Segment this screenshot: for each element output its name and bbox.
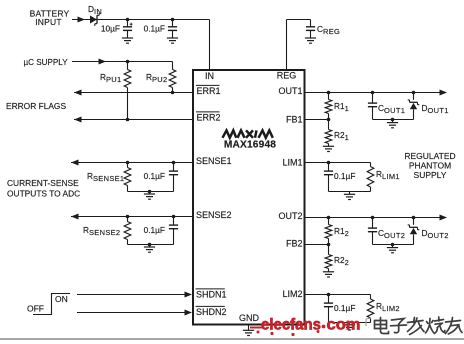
svg-text:0.1µF: 0.1µF xyxy=(144,24,165,34)
svg-text:ON: ON xyxy=(55,294,68,304)
svg-text:IN: IN xyxy=(205,71,214,81)
svg-text:R11: R11 xyxy=(334,101,349,113)
svg-text:INPUT: INPUT xyxy=(35,17,62,27)
svg-text:R21: R21 xyxy=(334,130,349,142)
svg-text:COUT1: COUT1 xyxy=(378,103,405,115)
svg-text:PHANTOM: PHANTOM xyxy=(409,161,451,171)
svg-text:elecfans: elecfans xyxy=(261,317,321,334)
svg-text:REG: REG xyxy=(277,71,297,81)
svg-text:SENSE2: SENSE2 xyxy=(196,210,232,220)
svg-text:RLIM1: RLIM1 xyxy=(376,169,400,181)
svg-text:DIN: DIN xyxy=(88,4,102,16)
svg-text:FB1: FB1 xyxy=(286,115,303,125)
svg-text:DOUT1: DOUT1 xyxy=(422,103,449,115)
svg-text:REGULATED: REGULATED xyxy=(404,151,455,161)
svg-text:SUPPLY: SUPPLY xyxy=(414,170,447,180)
svg-text:DOUT2: DOUT2 xyxy=(422,228,449,240)
svg-text:OUT1: OUT1 xyxy=(278,86,302,96)
svg-text:RPU2: RPU2 xyxy=(146,72,168,84)
svg-text:LIM2: LIM2 xyxy=(282,289,302,299)
svg-text:OFF: OFF xyxy=(27,304,44,314)
svg-text:ERR2: ERR2 xyxy=(197,113,221,123)
svg-text:LIM1: LIM1 xyxy=(282,158,302,168)
svg-text:FB2: FB2 xyxy=(286,239,303,249)
svg-text:CREG: CREG xyxy=(317,24,340,36)
svg-text:RLIM2: RLIM2 xyxy=(376,301,400,313)
svg-text:R22: R22 xyxy=(334,255,349,267)
svg-text:MAX16948: MAX16948 xyxy=(224,140,276,151)
svg-text:R12: R12 xyxy=(334,226,349,238)
svg-text:SHDN2: SHDN2 xyxy=(196,307,227,317)
svg-text:0.1µF: 0.1µF xyxy=(144,171,165,181)
svg-text:COUT2: COUT2 xyxy=(378,228,405,240)
svg-text:GND: GND xyxy=(239,313,260,323)
svg-text:SHDN1: SHDN1 xyxy=(196,290,227,300)
svg-text:OUTPUTS TO ADC: OUTPUTS TO ADC xyxy=(7,189,80,199)
svg-text:CURRENT-SENSE: CURRENT-SENSE xyxy=(7,178,79,188)
svg-text:com: com xyxy=(327,317,361,334)
svg-text:0.1µF: 0.1µF xyxy=(144,225,165,235)
svg-text:ERROR FLAGS: ERROR FLAGS xyxy=(6,101,66,111)
svg-text:OUT2: OUT2 xyxy=(278,211,302,221)
svg-text:RPU1: RPU1 xyxy=(100,72,122,84)
svg-text:ERR1: ERR1 xyxy=(197,86,221,96)
svg-text:RSENSE2: RSENSE2 xyxy=(83,225,120,237)
svg-text:SENSE1: SENSE1 xyxy=(196,156,232,166)
svg-text:RSENSE1: RSENSE1 xyxy=(87,171,124,183)
svg-text:10µF: 10µF xyxy=(101,24,120,34)
svg-text:µC SUPPLY: µC SUPPLY xyxy=(24,58,69,67)
svg-text:0.1µF: 0.1µF xyxy=(334,303,355,313)
svg-text:0.1µF: 0.1µF xyxy=(334,171,355,181)
